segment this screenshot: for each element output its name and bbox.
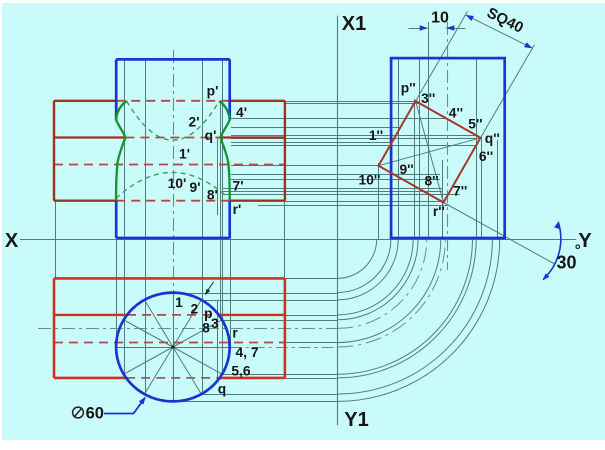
svg-text:10: 10 — [431, 10, 449, 27]
svg-text:1'': 1'' — [369, 128, 383, 143]
svg-text:6'': 6'' — [479, 149, 493, 164]
svg-text:9'': 9'' — [399, 162, 413, 177]
svg-text:3: 3 — [211, 316, 219, 331]
svg-text:9': 9' — [190, 180, 201, 195]
svg-text:4': 4' — [236, 105, 247, 120]
svg-text:60: 60 — [86, 404, 104, 422]
svg-text:8'': 8'' — [424, 173, 438, 188]
svg-text:1': 1' — [179, 147, 190, 162]
svg-text:p'': p'' — [401, 81, 416, 96]
svg-text:°: ° — [575, 242, 581, 259]
svg-text:Y1: Y1 — [344, 409, 368, 431]
svg-text:p': p' — [207, 84, 219, 99]
svg-text:10': 10' — [168, 176, 187, 191]
svg-text:q': q' — [205, 128, 217, 143]
svg-text:4'': 4'' — [449, 106, 463, 121]
svg-text:2': 2' — [189, 115, 200, 130]
svg-text:r: r — [232, 325, 238, 340]
svg-text:5,6: 5,6 — [231, 364, 251, 379]
svg-text:4, 7: 4, 7 — [235, 345, 258, 360]
svg-text:X: X — [5, 230, 19, 252]
svg-text:r'': r'' — [433, 204, 445, 219]
svg-text:X1: X1 — [342, 13, 366, 35]
svg-text:q'': q'' — [485, 131, 500, 146]
svg-text:7'': 7'' — [453, 184, 467, 199]
svg-text:8': 8' — [207, 188, 218, 203]
svg-text:2: 2 — [191, 302, 199, 317]
svg-text:1: 1 — [175, 295, 183, 310]
svg-text:30: 30 — [556, 253, 576, 273]
svg-text:3'': 3'' — [421, 91, 435, 106]
svg-text:8: 8 — [202, 321, 210, 336]
svg-text:5'': 5'' — [468, 116, 482, 131]
svg-text:r': r' — [233, 202, 242, 217]
svg-text:q: q — [218, 382, 226, 397]
svg-text:10'': 10'' — [359, 173, 381, 188]
svg-text:7': 7' — [233, 179, 244, 194]
